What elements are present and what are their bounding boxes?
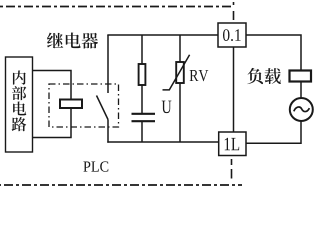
- PLC boundary top (dash-dot): [0, 6, 231, 8]
- internal circuit box: [6, 57, 33, 152]
- terminal box 1L: [219, 132, 246, 156]
- label RV: [190, 70, 209, 81]
- label 继电器: [47, 32, 98, 48]
- wire bottom rail: [107, 141, 219, 143]
- label U: [162, 101, 172, 114]
- wire coil loop top: [33, 71, 72, 100]
- wire top rail: [107, 34, 218, 36]
- varistor RV diagonal: [163, 55, 190, 90]
- resistor R (snubber): [139, 64, 146, 85]
- wire resistor to capacitor: [141, 85, 143, 113]
- label 负载: [247, 68, 280, 84]
- relay contact upper terminal: [107, 35, 109, 93]
- capacitor C plate 1: [132, 113, 156, 115]
- relay coil: [60, 100, 82, 109]
- PLC boundary right lower segment (dashed, from 1L box): [231, 159, 233, 185]
- varistor RV body: [176, 62, 184, 83]
- label PLC: [83, 161, 108, 171]
- wire resistor branch upper: [141, 35, 143, 64]
- label 0.1: [223, 29, 241, 41]
- wire varistor lower: [179, 83, 181, 142]
- load resistor: [290, 71, 312, 82]
- PLC boundary right upper segment (dashed, to 0.1 box): [233, 2, 235, 23]
- AC source sine symbol: [294, 107, 310, 112]
- relay contact arm: [97, 96, 109, 120]
- label 1L: [225, 138, 239, 151]
- relay contact lower terminal: [107, 120, 109, 143]
- label 内部电路: [12, 70, 27, 131]
- wire varistor branch upper: [179, 35, 181, 62]
- relay enclosure (dash-dot): [49, 84, 119, 127]
- wire load resistor to AC source: [300, 82, 302, 99]
- terminal box 0.1: [218, 23, 246, 47]
- wire capacitor lower: [141, 122, 143, 142]
- wire 0.1 to load resistor: [246, 35, 301, 70]
- wire AC source to 1L: [246, 121, 301, 143]
- capacitor C plate 2: [132, 120, 156, 122]
- wire coil loop bottom: [33, 108, 72, 138]
- wire 0.1 to 1L: [233, 47, 235, 132]
- PLC boundary bottom (dash-dot): [0, 184, 242, 186]
- AC source circle: [290, 98, 313, 121]
